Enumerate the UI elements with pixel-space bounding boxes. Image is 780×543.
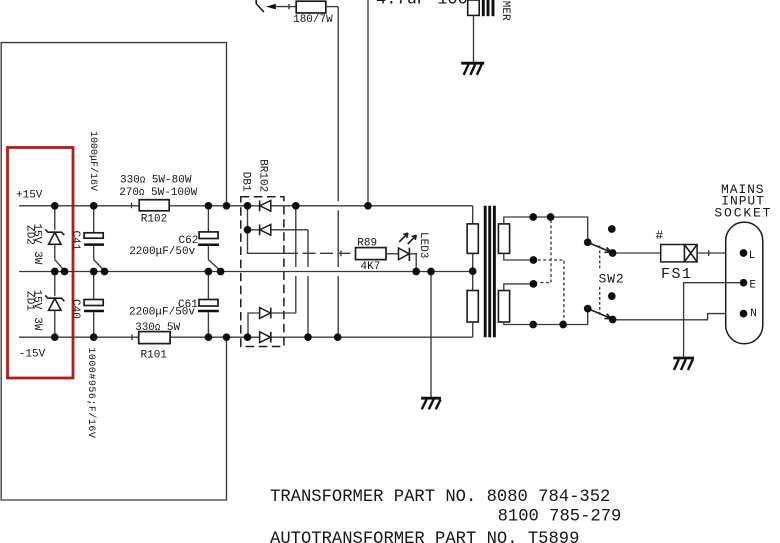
diode D1 (top, in +rail, cathode left) [260,200,271,211]
wire: tick on L wire [708,250,710,256]
resistor R102 [132,200,170,211]
wire: dashed feeder to R89 [285,252,356,254]
svg-text:L: L [749,250,756,262]
zener diode ZD1 [45,272,64,338]
wire: 180/7W to vertical feed [326,6,338,8]
svg-text:TRANSFORMER PART NO. 8080 784: TRANSFORMER PART NO. 8080 784-352 [270,488,610,507]
node dots: SW2 contacts [584,225,617,323]
wire: primary bottom to SW2 pole 2 [504,309,588,325]
svg-text:8100 785-279: 8100 785-279 [498,507,622,526]
wire: primary upper tap [504,253,530,260]
transformer T1 secondary winding upper [467,224,478,254]
node junction dot: D2 input [244,226,252,234]
node junction dots: top rail [51,202,372,210]
wire: 0V rail stub to chassis ground [430,272,432,398]
switch SW2 gang link (dashed) [599,246,601,316]
bridge rectifier DB1/BR102 dashed outline [241,197,284,347]
svg-text:BR102: BR102 [257,159,269,192]
svg-text:N: N [750,308,757,320]
wire: SW2 pole2 throw to N terminal [613,314,740,320]
label MAINS INPUT SOCKET [714,182,772,221]
switch SW2 pole 2 arm [588,309,611,319]
wire: AC feed from 180/7W down to bottom rail [337,7,339,338]
transformer T1 secondary winding lower [467,291,478,323]
svg-text:270Ω 5W-100W: 270Ω 5W-100W [119,187,197,199]
diode D2 (second, cathode left) [248,206,309,235]
wire: SW2 pole1 throw to fuse [613,252,661,254]
node E terminal [740,279,748,287]
wire: dashed voltage-select link A [538,220,551,283]
connector: mains input socket outline [726,222,763,344]
wire: fuse to L terminal [697,252,740,254]
svg-text:3W: 3W [31,317,43,331]
transformer T1 core laminations [485,206,494,337]
wire: secondary bottom connection [472,322,474,337]
wire: amplifier-board outline bus (left block border) [1,43,226,500]
ground (chassis) for earth terminal [673,358,694,370]
transformer (cut off) core laminations [483,0,493,16]
resistor 180/7W [296,1,326,13]
wire: vertical link D2 anode to bottom rail node [307,230,309,337]
svg-text:ZD2: ZD2 [23,225,35,245]
svg-text:+15V: +15V [16,189,43,201]
arrowhead at switch contact [266,4,276,10]
svg-text:FS1: FS1 [661,266,693,283]
svg-text:C40: C40 [69,299,81,319]
wire: top transformer to chassis ground [473,15,475,62]
wire: vertical link D3 cathode to top rail node [295,206,297,313]
svg-text:#: # [656,228,664,243]
capacitor C62 [198,206,220,271]
wire: arrow to resistor 180/7W [276,6,296,8]
svg-text:R101: R101 [141,350,168,362]
wire: secondary centre tap [472,253,474,290]
LED LED3 [386,233,416,271]
capacitor C41 [84,206,104,271]
node L terminal [740,249,748,257]
svg-text:ZD1: ZD1 [23,291,35,311]
transformer (cut off at top): winding [468,0,480,15]
svg-text:3W: 3W [31,251,43,265]
node junction dots: middle rail [51,267,477,275]
svg-text:4.7uF 100V: 4.7uF 100V [376,0,479,9]
node dots: primary taps [529,213,567,328]
node highlight: red annotation rectangle around ZD1/ZD2 [8,148,74,379]
svg-text:330Ω 5W: 330Ω 5W [135,322,180,334]
wire: AC feed from top edge down to top rail [367,0,369,206]
svg-text:SW2: SW2 [599,271,625,286]
svg-text:R102: R102 [141,214,167,226]
svg-text:180/7W: 180/7W [293,14,333,26]
wire: +15V top rail [19,205,473,207]
wire: link from D2 cathode node down to R89 feeder [248,230,286,254]
diode D4 (bottom, in -rail, anode left) [260,332,271,343]
svg-text:10001000μF/16V#956;F/16V: 10001000μF/16V#956;F/16V [85,347,97,438]
switch SW2 pole 1 arm [588,243,611,253]
svg-text:2200μF/50v: 2200μF/50v [129,307,195,319]
svg-text:E: E [749,280,756,292]
capacitor C40 [84,272,104,338]
svg-text:1000μF/16V: 1000μF/16V [87,131,99,191]
wire: E terminal to chassis ground [684,283,740,357]
wire: primary top to SW2 pole 1 [504,217,588,242]
wire: tick on 180/7W wire [288,4,290,9]
switch blade (cut off at top) feeding 180/7W [256,0,264,12]
wire: 0V middle rail [19,271,473,273]
ground (chassis) top [461,63,484,75]
transformer T1 secondary top connection [472,206,474,224]
svg-text:SOCKET: SOCKET [714,206,772,221]
svg-text:MER: MER [499,1,511,21]
svg-text:330Ω 5W-80W: 330Ω 5W-80W [120,174,192,186]
capacitor C61 [198,272,219,338]
node N terminal [740,310,748,318]
svg-text:C41: C41 [69,231,81,251]
svg-text:4K7: 4K7 [361,261,381,273]
svg-text:2200μF/50v: 2200μF/50v [129,246,195,258]
transformer T1 primary winding upper [498,224,509,254]
svg-text:C62: C62 [179,235,199,247]
wire: -15V bottom rail [19,336,473,338]
node junction dots: bottom rail [51,333,342,341]
svg-text:DB1: DB1 [239,172,251,192]
diode D3 (third, anode left, to top rail) [248,308,296,338]
ground (chassis) below 0V rail [421,398,441,409]
wire: dashed voltage-select link B [538,260,564,321]
svg-text:AUTOTRANSFORMER PART NO. T589: AUTOTRANSFORMER PART NO. T5899 [270,530,579,543]
resistor R89 [341,248,386,260]
resistor R101 [132,332,170,344]
zener diode ZD2 [45,206,64,271]
svg-text:R89: R89 [357,238,377,250]
fuse FS1 [661,245,697,262]
transformer T1 primary winding lower [498,291,509,323]
svg-text:LED3: LED3 [417,232,429,258]
wire: primary lower tap [504,284,530,291]
svg-text:-15V: -15V [19,349,46,361]
